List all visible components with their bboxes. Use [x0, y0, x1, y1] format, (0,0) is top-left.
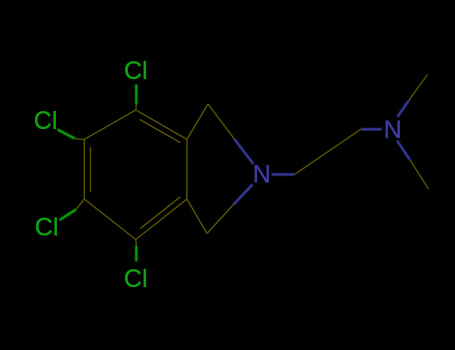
bond N-CH2 chain blue horizontal: [272, 173, 295, 175]
bond C3(H2)-N blue half: [234, 185, 253, 205]
benzene ring edge C7a-C7 (double bond outer): [136, 199, 187, 239]
svg-text:Cl: Cl: [124, 265, 148, 293]
svg-text:N: N: [384, 116, 402, 144]
benzene ring edge C5-C4: [84, 110, 136, 139]
benzene ring edge C7a-C7 inner line: [140, 197, 180, 229]
benzene ring edge C4a-C7a: [186, 139, 188, 199]
bond C1(H2)-N blue half: [234, 139, 253, 164]
benzene ring edge C7-C6: [84, 199, 136, 239]
bond CH2-N2 blue horizontal: [361, 128, 382, 130]
bond C1(H2)-N olive half: [208, 104, 234, 139]
bond CH2-CH2 chain olive diagonal: [295, 129, 361, 174]
bond Cl(lower-left)-C6 green: [60, 210, 77, 221]
benzene ring edge C4-C4a inner line: [140, 119, 181, 142]
benzene ring edge C4-C4a (double bond outer): [136, 110, 187, 139]
bond C4a-C1(H2) top methylene: [187, 104, 208, 139]
bond Cl(upper-left)-C5 olive tail: [75, 138, 84, 141]
svg-text:Cl: Cl: [35, 213, 59, 241]
benzene ring edge C6-C5 (double bond outer): [83, 139, 85, 199]
svg-text:Cl: Cl: [34, 107, 58, 135]
bond Cl(bottom)-C7 green: [135, 246, 138, 261]
svg-text:Cl: Cl: [124, 57, 148, 85]
bond Cl(top)-C4 olive tail: [135, 104, 138, 110]
bond N2-CH3 lower olive half: [410, 160, 429, 189]
svg-text:N: N: [253, 161, 271, 189]
bond N2-CH3 upper blue half: [398, 101, 409, 117]
bond Cl(top)-C4 green: [135, 85, 138, 105]
benzene ring edge C6-C5 inner line: [90, 147, 92, 192]
bond C7a-C3(H2) bottom methylene: [187, 199, 207, 233]
bond N2-CH3 lower blue half: [397, 141, 410, 161]
bond C3(H2)-N olive half: [207, 205, 234, 234]
bond Cl(bottom)-C7 olive tail: [135, 240, 138, 247]
bond Cl(lower-left)-C6 olive tail: [76, 199, 84, 209]
bond Cl(upper-left)-C5 green: [58, 130, 76, 139]
bond N2-CH3 upper olive half: [409, 75, 428, 101]
